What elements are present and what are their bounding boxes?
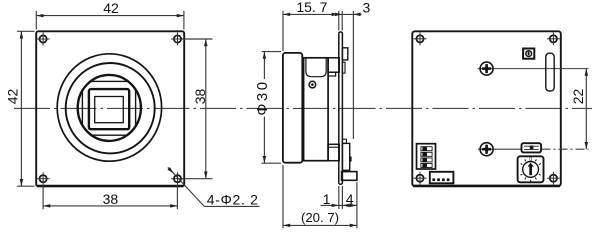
side view rear component middle step [342, 139, 346, 143]
front plate [36, 31, 184, 186]
side view rear component middle [342, 143, 349, 170]
DIP switch block [417, 144, 436, 169]
mounting hole back top-right [547, 32, 560, 45]
svg-text:38: 38 [103, 191, 119, 207]
side view rear top step [328, 72, 336, 76]
lens barrel inner circle [66, 63, 155, 153]
svg-text:4: 4 [346, 191, 354, 207]
mounting hole front bottom-right [171, 172, 184, 185]
horizontal centerline through all three views [14, 107, 592, 109]
side view rear top block [328, 58, 339, 72]
extension line through bottom screw and slide switch [478, 148, 521, 150]
back plate bottom edge emphasis [413, 185, 560, 188]
svg-text:4-Φ2. 2: 4-Φ2. 2 [207, 191, 259, 207]
svg-text:3: 3 [363, 0, 371, 16]
lens barrel outer circle [57, 54, 161, 161]
dimension 15.7 top of side view [283, 0, 339, 51]
side view back panel plate [339, 32, 343, 184]
phillips screw top [480, 62, 493, 75]
dimension 4 bottom of side view [342, 182, 357, 228]
extension line through top screw [478, 68, 589, 70]
mounting hole front bottom-left [37, 172, 50, 185]
svg-text:Φ30: Φ30 [254, 79, 271, 115]
side view lens barrel [283, 53, 302, 163]
sensor package square [89, 89, 129, 129]
side view rear bottom block [328, 144, 339, 160]
slot cutout right side of back view [546, 53, 554, 91]
mounting hole front top-left [37, 33, 50, 46]
4-pin connector bottom of back view [430, 172, 454, 184]
svg-text:0: 0 [529, 157, 532, 163]
dimension 38 bottom of front view [43, 185, 177, 210]
mounting hole back top-left [414, 32, 427, 45]
rotary switch [518, 156, 544, 182]
mounting hole back bottom-left [414, 172, 427, 185]
lens mount ring circle [78, 75, 141, 141]
back plate [412, 31, 561, 186]
side view rear bottom block inner line [328, 146, 339, 148]
mounting hole back bottom-right [547, 172, 560, 185]
svg-text:15. 7: 15. 7 [296, 0, 327, 15]
leader and label 4-phi2.2 [167, 167, 259, 207]
svg-text:42: 42 [103, 0, 119, 16]
sensor active-area square [95, 97, 124, 123]
svg-text:22: 22 [570, 89, 586, 105]
side view rear component middle tab [350, 157, 352, 162]
dimension 1 bottom of side view [321, 186, 343, 209]
side view body inner bracket [306, 59, 326, 77]
svg-text:1: 1 [323, 191, 331, 207]
extension line dash-dot right of slide switch [542, 148, 589, 150]
front plate bottom edge emphasis [37, 185, 184, 188]
side view rear component top [342, 48, 347, 60]
dimension 3 top of side view [334, 0, 371, 139]
svg-text:42: 42 [5, 89, 21, 105]
dimension 42 top of front view [36, 0, 184, 29]
side view set screw [309, 81, 316, 88]
dimension 38 right of front view [182, 39, 213, 179]
side view bottom connector [342, 172, 357, 181]
dimension 22 right of back view [570, 69, 588, 150]
slide switch [522, 143, 542, 152]
dimension phi30 left of side view [254, 52, 281, 164]
phillips screw bottom [480, 143, 493, 156]
svg-text:(20. 7): (20. 7) [301, 210, 339, 225]
LED indicator square [523, 49, 534, 59]
side view rear component small [342, 62, 345, 73]
svg-text:38: 38 [192, 89, 208, 105]
dimension (20.7) bottom of side view [283, 165, 357, 228]
side view camera body [304, 58, 329, 161]
dimension 42 left of front view [5, 31, 35, 186]
mounting hole front top-right [171, 33, 184, 46]
